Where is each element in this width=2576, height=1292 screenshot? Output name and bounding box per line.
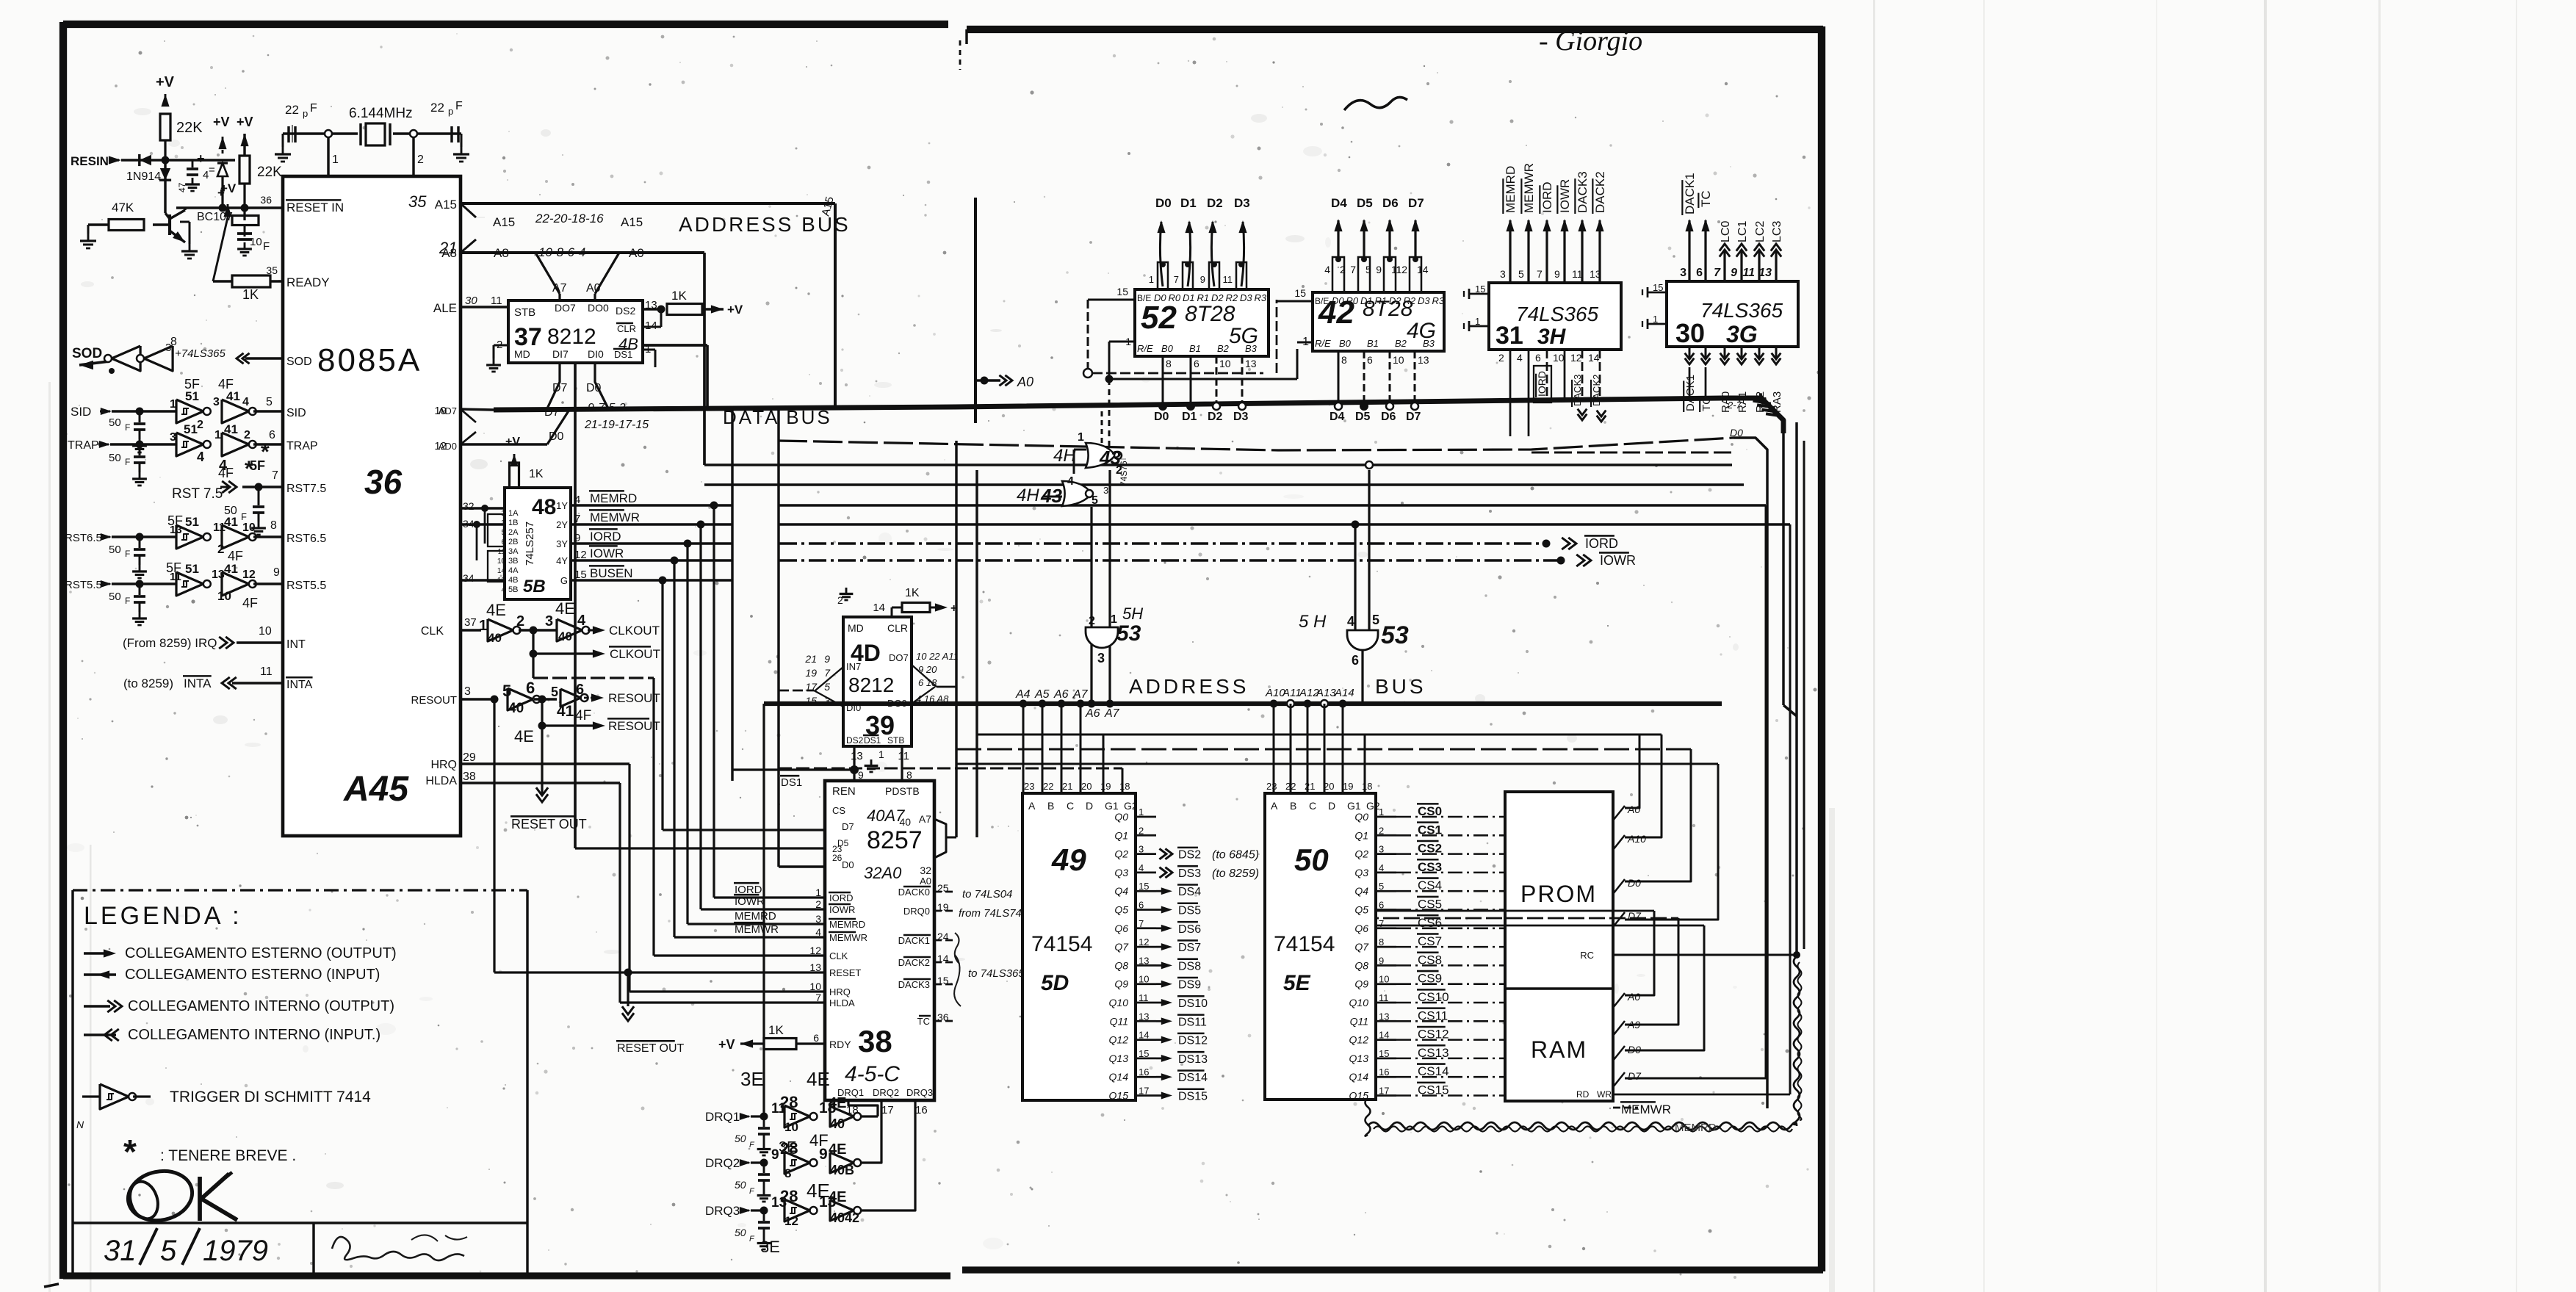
svg-text:5 H: 5 H (1299, 612, 1327, 632)
svg-text:3H: 3H (1537, 325, 1567, 349)
svg-text:CLK: CLK (421, 625, 444, 638)
svg-text:40A7: 40A7 (867, 806, 905, 825)
svg-text:3: 3 (464, 685, 471, 698)
svg-text:DRQ3: DRQ3 (906, 1087, 933, 1098)
svg-text:4042: 4042 (830, 1210, 859, 1225)
svg-text:DO7: DO7 (555, 302, 576, 314)
svg-text:RC: RC (1580, 950, 1594, 961)
svg-text:DI7: DI7 (552, 348, 569, 360)
svg-text:BUSEN: BUSEN (590, 566, 633, 580)
svg-text:32: 32 (920, 865, 931, 876)
svg-text:17: 17 (881, 1104, 894, 1116)
svg-text:2Y: 2Y (556, 519, 568, 530)
svg-text:Q12: Q12 (1109, 1034, 1129, 1046)
svg-text:3: 3 (815, 913, 821, 925)
svg-text:ADDRESS: ADDRESS (1129, 675, 1249, 698)
svg-text:DS10: DS10 (1178, 997, 1208, 1010)
svg-text:+V: +V (220, 181, 237, 195)
svg-text:Q3: Q3 (1114, 867, 1128, 878)
svg-text:52: 52 (1141, 300, 1177, 336)
svg-text:B1: B1 (1367, 338, 1379, 349)
svg-text:A45: A45 (343, 770, 409, 809)
svg-text:D: D (1328, 800, 1335, 812)
svg-text:TC: TC (1699, 190, 1713, 207)
svg-text:36: 36 (364, 463, 403, 501)
svg-text:Q15: Q15 (1349, 1090, 1369, 1102)
svg-text:D0: D0 (842, 859, 854, 870)
svg-text:F: F (263, 240, 270, 253)
svg-text:50: 50 (109, 452, 121, 464)
svg-text:13: 13 (1758, 267, 1772, 279)
svg-text:COLLEGAMENTO ESTERNO (INPUT): COLLEGAMENTO ESTERNO (INPUT) (125, 967, 380, 983)
svg-text:INTA: INTA (286, 679, 313, 691)
svg-text:21: 21 (1062, 781, 1072, 792)
svg-text:6: 6 (526, 679, 535, 697)
svg-text:A8: A8 (494, 246, 509, 260)
svg-text:22-20-18-16: 22-20-18-16 (535, 212, 604, 225)
svg-text:3E: 3E (740, 1068, 764, 1090)
svg-text:12: 12 (1570, 352, 1582, 364)
svg-text:A5: A5 (1034, 688, 1050, 701)
svg-text:A10: A10 (1627, 833, 1646, 845)
svg-text:9: 9 (771, 1147, 779, 1163)
svg-text:4: 4 (815, 926, 821, 938)
svg-text:53: 53 (1381, 621, 1409, 649)
svg-text:p: p (448, 106, 453, 117)
svg-text:3Y: 3Y (556, 538, 568, 549)
svg-text:MEMRD: MEMRD (735, 910, 776, 923)
svg-text:11: 11 (260, 665, 273, 678)
svg-text:STB: STB (514, 306, 535, 319)
svg-text:8212: 8212 (547, 325, 596, 349)
svg-text:4: 4 (577, 613, 586, 629)
svg-text:IOWR: IOWR (1558, 179, 1572, 213)
svg-text:SOD: SOD (286, 356, 312, 368)
svg-text:D5: D5 (1357, 196, 1373, 210)
svg-text:50: 50 (109, 416, 121, 429)
svg-text:2: 2 (417, 154, 424, 166)
svg-text:1: 1 (214, 429, 221, 441)
svg-text:B3: B3 (1423, 338, 1435, 349)
svg-text:R/E: R/E (1315, 338, 1331, 349)
svg-text:38: 38 (463, 770, 476, 783)
svg-text:F: F (125, 422, 130, 433)
svg-text:2: 2 (217, 542, 224, 556)
svg-text:7: 7 (1537, 268, 1543, 280)
svg-text:ADDRESS BUS: ADDRESS BUS (679, 213, 851, 236)
svg-text:10: 10 (259, 625, 272, 638)
svg-text:4B: 4B (508, 576, 518, 585)
svg-text:1N914: 1N914 (126, 170, 161, 183)
svg-text:RST7.5: RST7.5 (286, 483, 326, 495)
svg-text:10-8-6-4: 10-8-6-4 (538, 245, 585, 259)
svg-text:22: 22 (1285, 781, 1296, 792)
svg-text:Q4: Q4 (1114, 885, 1128, 897)
svg-text:6: 6 (1696, 267, 1703, 279)
svg-text:38: 38 (858, 1024, 892, 1058)
svg-text:D0: D0 (549, 430, 564, 443)
svg-text:6: 6 (1535, 352, 1541, 364)
svg-text:4: 4 (1517, 352, 1523, 364)
svg-text:23: 23 (1024, 781, 1034, 792)
svg-text:40: 40 (508, 701, 524, 716)
svg-text:DACK1: DACK1 (1684, 375, 1697, 411)
svg-text:DACK2: DACK2 (898, 957, 930, 968)
svg-text:A0: A0 (1017, 375, 1033, 389)
svg-text:A0: A0 (629, 246, 644, 260)
svg-text:MEMRD: MEMRD (1504, 166, 1518, 213)
svg-text:11: 11 (898, 750, 909, 762)
svg-text:9: 9 (1731, 267, 1737, 279)
svg-text:D4: D4 (1331, 196, 1347, 210)
svg-text:to 74LS04: to 74LS04 (962, 888, 1012, 901)
svg-text:5: 5 (1372, 613, 1379, 627)
svg-text:51: 51 (185, 562, 199, 576)
svg-text:3G: 3G (1726, 321, 1758, 347)
svg-text:21: 21 (804, 653, 817, 665)
svg-text:SID: SID (71, 405, 91, 419)
svg-text:LEGENDA :: LEGENDA : (84, 902, 242, 930)
svg-text:8T28: 8T28 (1185, 302, 1235, 326)
svg-text:8: 8 (170, 336, 177, 348)
svg-text:4: 4 (197, 450, 204, 464)
svg-text:5: 5 (266, 396, 273, 408)
svg-text:74154: 74154 (1274, 932, 1335, 956)
svg-text:INTA: INTA (184, 676, 212, 690)
svg-text:10: 10 (1553, 352, 1565, 364)
svg-text:B0: B0 (1161, 343, 1174, 354)
svg-text:(to 8259): (to 8259) (1212, 867, 1259, 880)
svg-text:26: 26 (832, 853, 843, 863)
svg-text:21: 21 (1305, 781, 1315, 792)
svg-text:DACK0: DACK0 (898, 887, 930, 898)
svg-text:A7: A7 (919, 813, 931, 825)
svg-text:D7: D7 (842, 821, 854, 832)
svg-text:4E: 4E (829, 1141, 846, 1158)
svg-text:IORD: IORD (590, 530, 621, 544)
svg-text:LC2: LC2 (1754, 221, 1767, 242)
svg-text:15: 15 (1294, 287, 1306, 299)
svg-text:1K: 1K (671, 289, 687, 303)
svg-text:22: 22 (1043, 781, 1053, 792)
svg-text:RESIN: RESIN (71, 154, 109, 168)
svg-text:20: 20 (1081, 781, 1092, 792)
svg-text:RESET OUT: RESET OUT (511, 817, 587, 831)
svg-text:1K: 1K (768, 1023, 784, 1037)
svg-text:DS8: DS8 (1178, 960, 1201, 972)
svg-text:D7: D7 (1628, 1070, 1642, 1082)
svg-text:7: 7 (272, 469, 278, 482)
svg-text:+: + (950, 602, 957, 615)
svg-text:13: 13 (212, 569, 225, 581)
svg-text:Q10: Q10 (1349, 997, 1369, 1008)
svg-text:7: 7 (1350, 264, 1356, 275)
svg-text:3: 3 (545, 613, 553, 629)
svg-text:BUS: BUS (1375, 675, 1426, 698)
svg-text:+V: +V (727, 303, 743, 317)
svg-text:31: 31 (1496, 322, 1523, 350)
svg-text:41: 41 (224, 515, 238, 529)
svg-text:Q15: Q15 (1109, 1090, 1129, 1102)
svg-text:A15: A15 (493, 215, 515, 229)
svg-text:+V: +V (505, 436, 520, 448)
svg-text:2: 2 (197, 419, 203, 431)
svg-text:74LS257: 74LS257 (524, 522, 536, 566)
svg-text:IOWR: IOWR (735, 895, 765, 908)
svg-text:PDSTB: PDSTB (885, 785, 920, 797)
svg-text:CLR: CLR (617, 323, 636, 334)
svg-text:RST5.5: RST5.5 (286, 580, 326, 592)
svg-text:CLKOUT: CLKOUT (610, 647, 660, 661)
svg-text:DS3: DS3 (1178, 867, 1201, 880)
svg-text:CS: CS (832, 805, 845, 816)
svg-text:CLKOUT: CLKOUT (609, 624, 660, 638)
svg-text:AD0: AD0 (439, 441, 457, 452)
svg-text:D6: D6 (1382, 196, 1399, 210)
svg-text:9-7-5-3: 9-7-5-3 (588, 402, 626, 414)
svg-text:29: 29 (463, 751, 476, 764)
svg-text:RESET: RESET (829, 967, 861, 978)
svg-text:DACK2: DACK2 (1593, 171, 1607, 213)
svg-text:5: 5 (160, 1235, 177, 1267)
svg-text:74S76: 74S76 (1119, 461, 1129, 486)
svg-text:REN: REN (832, 785, 856, 798)
svg-text:74LS365: 74LS365 (1700, 299, 1783, 322)
svg-text:F: F (125, 457, 130, 467)
svg-text:TRAP: TRAP (286, 440, 318, 452)
svg-text:A6: A6 (1053, 688, 1069, 701)
svg-text:D0: D0 (1155, 196, 1172, 210)
svg-text:3: 3 (1500, 268, 1506, 280)
svg-text:16: 16 (915, 1104, 928, 1116)
svg-text:22K: 22K (257, 165, 282, 180)
svg-text:A13: A13 (1316, 687, 1336, 699)
svg-text:D7: D7 (1406, 411, 1421, 423)
svg-text:9: 9 (824, 653, 830, 665)
svg-text:A0: A0 (586, 282, 601, 295)
svg-text:MEMWR: MEMWR (1522, 163, 1536, 213)
svg-text:8: 8 (1166, 358, 1172, 369)
svg-text:51: 51 (185, 389, 199, 403)
svg-text:Q11: Q11 (1110, 1015, 1128, 1027)
svg-text:14: 14 (1417, 264, 1429, 275)
svg-text:DS7: DS7 (1178, 942, 1201, 954)
svg-text:2: 2 (516, 613, 524, 629)
svg-text:COLLEGAMENTO ESTERNO (OUTPUT: COLLEGAMENTO ESTERNO (OUTPUT) (125, 945, 397, 961)
svg-text:RESOUT: RESOUT (411, 694, 457, 707)
svg-text:11: 11 (1742, 267, 1755, 279)
svg-text:50: 50 (735, 1179, 746, 1191)
svg-text:20: 20 (1324, 781, 1334, 792)
svg-text:from 74LS74: from 74LS74 (959, 907, 1022, 920)
svg-text:G1: G1 (1347, 800, 1361, 812)
svg-text:6: 6 (1194, 358, 1199, 369)
svg-text:+74LS365: +74LS365 (175, 347, 226, 360)
svg-text:R3: R3 (1432, 295, 1445, 306)
svg-text:6: 6 (813, 1032, 819, 1044)
svg-text:IOWR: IOWR (829, 904, 855, 915)
svg-text:13: 13 (809, 961, 821, 973)
svg-text:RST5.5: RST5.5 (65, 579, 102, 591)
svg-text:F: F (241, 511, 247, 522)
svg-text:18: 18 (1362, 781, 1372, 792)
svg-text:DS12: DS12 (1178, 1035, 1208, 1047)
svg-text:5: 5 (1365, 264, 1371, 275)
svg-text:11: 11 (1223, 274, 1233, 285)
svg-text:STB: STB (887, 735, 904, 746)
svg-text:D0: D0 (586, 382, 602, 394)
svg-text:Q11: Q11 (1350, 1015, 1368, 1027)
svg-text:D7: D7 (552, 382, 568, 394)
svg-text:A7: A7 (1072, 688, 1089, 701)
svg-text:Q2: Q2 (1354, 848, 1368, 860)
svg-text:5E: 5E (1283, 971, 1311, 995)
svg-text:1: 1 (1078, 431, 1084, 444)
svg-text:D6: D6 (1381, 411, 1396, 423)
svg-text:HLDA: HLDA (425, 775, 457, 787)
svg-text:Q13: Q13 (1109, 1053, 1129, 1064)
svg-text:1: 1 (479, 618, 487, 634)
svg-text:41: 41 (557, 703, 574, 720)
svg-text:(to 6845): (to 6845) (1212, 849, 1259, 862)
svg-text:4E: 4E (514, 727, 534, 746)
svg-text:1B: 1B (508, 519, 518, 527)
svg-text:RST6.5: RST6.5 (286, 533, 326, 545)
svg-text:D0: D0 (1628, 877, 1641, 889)
svg-text:A11: A11 (1282, 687, 1302, 699)
svg-text:: TENERE BREVE .: : TENERE BREVE . (160, 1147, 296, 1164)
svg-text:F: F (455, 100, 463, 112)
svg-text:DI0: DI0 (588, 348, 604, 360)
svg-text:40: 40 (558, 629, 572, 643)
svg-text:MEMWR: MEMWR (590, 510, 640, 524)
svg-text:15: 15 (1475, 284, 1485, 295)
svg-text:11: 11 (491, 295, 502, 307)
svg-text:F: F (125, 596, 130, 606)
svg-text:A: A (1271, 800, 1278, 812)
svg-text:MEMRD: MEMRD (590, 491, 637, 505)
svg-text:IORD: IORD (1540, 182, 1554, 214)
svg-text:4F: 4F (218, 466, 234, 480)
svg-text:RESOUT: RESOUT (608, 719, 660, 733)
svg-text:13: 13 (1418, 354, 1429, 366)
svg-text:A6: A6 (1085, 707, 1100, 720)
svg-text:22K: 22K (176, 120, 203, 136)
svg-text:7: 7 (824, 667, 831, 679)
svg-text:*: * (245, 457, 253, 481)
svg-text:3: 3 (170, 431, 176, 444)
svg-text:Q1: Q1 (1354, 829, 1368, 841)
svg-text:9: 9 (273, 566, 280, 579)
svg-text:48: 48 (532, 495, 556, 519)
svg-text:IOWR: IOWR (590, 546, 624, 560)
svg-text:B: B (1047, 800, 1054, 812)
svg-text:TC: TC (917, 1016, 930, 1027)
svg-text:*: * (123, 1133, 137, 1171)
svg-text:4: 4 (1347, 614, 1354, 629)
svg-text:2: 2 (1498, 352, 1504, 364)
svg-text:14: 14 (1588, 352, 1600, 364)
svg-text:DACK3: DACK3 (1572, 375, 1583, 406)
svg-text:+V: +V (213, 115, 230, 129)
svg-text:D3: D3 (1234, 196, 1250, 210)
svg-text:DS4: DS4 (1178, 886, 1201, 898)
svg-text:74154: 74154 (1031, 932, 1092, 956)
svg-text:Q13: Q13 (1349, 1053, 1369, 1064)
svg-text:A15: A15 (621, 215, 643, 229)
svg-text:D2: D2 (1208, 411, 1223, 423)
svg-text:TRIGGER DI SCHMITT 7414: TRIGGER DI SCHMITT 7414 (170, 1089, 371, 1105)
svg-text:1: 1 (332, 154, 339, 166)
svg-text:A7: A7 (552, 282, 567, 295)
svg-text:D7: D7 (1408, 196, 1424, 210)
svg-text:A0: A0 (1627, 991, 1640, 1003)
svg-text:F: F (310, 102, 317, 115)
svg-text:34: 34 (463, 572, 475, 584)
svg-text:HLDA: HLDA (829, 997, 855, 1008)
svg-text:22: 22 (430, 101, 444, 115)
svg-text:4: 4 (1324, 264, 1330, 275)
svg-text:DS15: DS15 (1178, 1091, 1208, 1103)
svg-text:DACK1: DACK1 (1683, 173, 1697, 214)
svg-text:RST 7.5: RST 7.5 (172, 486, 223, 502)
svg-text:13: 13 (1245, 358, 1257, 369)
svg-text:TRAP: TRAP (68, 439, 99, 452)
svg-text:Q12: Q12 (1349, 1034, 1369, 1046)
svg-text:1K: 1K (905, 587, 920, 599)
svg-text:D3: D3 (1233, 411, 1249, 423)
svg-text:10: 10 (1219, 358, 1231, 369)
svg-text:37: 37 (464, 616, 477, 629)
svg-text:7: 7 (815, 992, 821, 1003)
svg-text:Q6: Q6 (1114, 923, 1128, 934)
svg-text:23: 23 (1266, 781, 1277, 792)
svg-text:DS11: DS11 (1178, 1016, 1207, 1028)
svg-text:12: 12 (242, 569, 256, 581)
svg-text:8085A: 8085A (317, 342, 422, 378)
svg-text:4F: 4F (228, 549, 243, 563)
svg-text:4E: 4E (829, 1189, 846, 1205)
svg-text:4Y: 4Y (556, 555, 568, 566)
svg-text:AD7: AD7 (439, 405, 457, 416)
svg-text:4B: 4B (618, 335, 638, 353)
svg-text:DS1: DS1 (864, 735, 881, 746)
svg-text:10: 10 (242, 522, 256, 534)
svg-text:(to 8259): (to 8259) (123, 676, 173, 690)
svg-text:8: 8 (784, 1166, 791, 1180)
svg-text:LC0: LC0 (1720, 221, 1732, 242)
svg-text:15: 15 (1653, 282, 1663, 293)
svg-text:HRQ: HRQ (430, 759, 457, 771)
svg-text:D3: D3 (1418, 295, 1430, 306)
svg-text:12: 12 (809, 945, 821, 956)
svg-text:D2: D2 (1207, 196, 1223, 210)
svg-text:CLR: CLR (887, 622, 908, 634)
svg-text:13: 13 (851, 750, 863, 762)
svg-text:DACK1: DACK1 (898, 935, 930, 946)
svg-text:4F: 4F (242, 596, 258, 610)
svg-text:D: D (1086, 800, 1093, 812)
svg-text:DO0: DO0 (588, 302, 609, 314)
svg-text:MEMRD: MEMRD (829, 919, 865, 930)
svg-text:DS5: DS5 (1178, 905, 1201, 917)
svg-text:D7: D7 (544, 406, 560, 419)
svg-text:15: 15 (1116, 286, 1128, 297)
svg-text:12: 12 (784, 1214, 798, 1228)
svg-text:40: 40 (830, 1116, 845, 1131)
svg-text:1: 1 (815, 887, 821, 898)
svg-text:R/E: R/E (1137, 343, 1153, 354)
